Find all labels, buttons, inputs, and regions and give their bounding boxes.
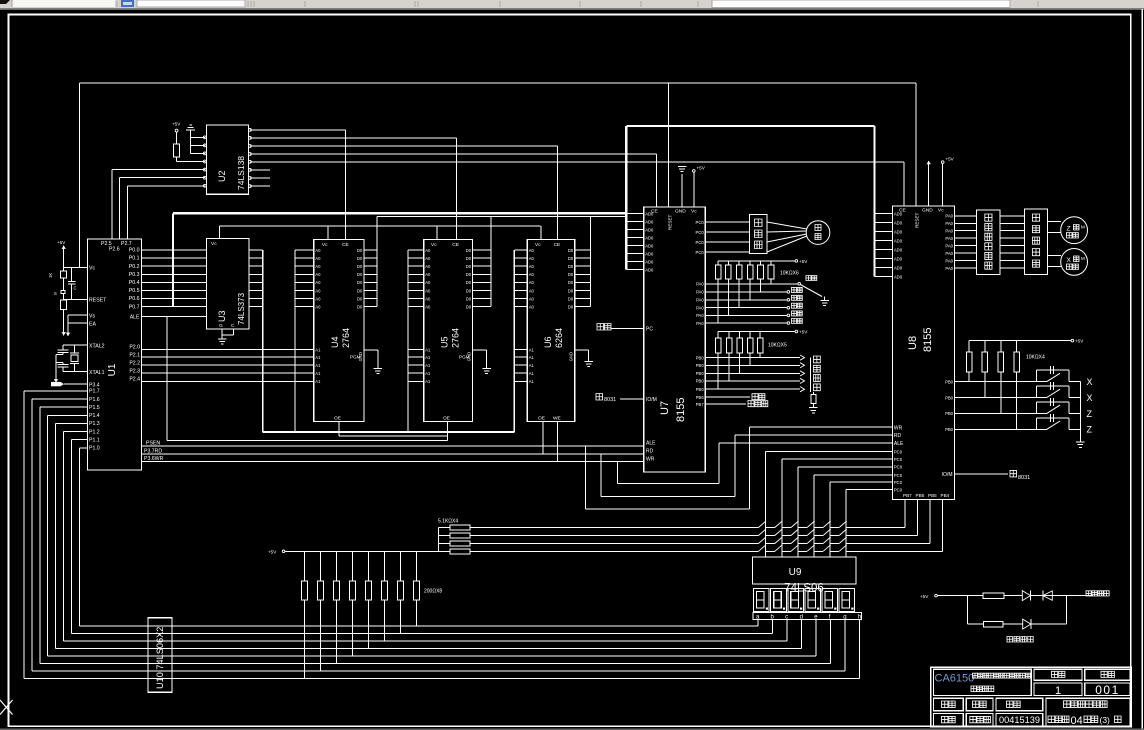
wire Vss EA to ground [68, 315, 87, 331]
svg-text:P1.2: P1.2 [89, 429, 100, 435]
title block cell drafter header [934, 698, 964, 710]
wire RD long line to U7 [142, 453, 644, 455]
svg-text:AD0: AD0 [645, 243, 654, 248]
svg-text:A1: A1 [529, 347, 535, 352]
reset button S1 [54, 290, 65, 296]
selector blade switch PA0 [798, 276, 822, 297]
U9 part label 74LS06 [784, 583, 824, 595]
svg-text:A0: A0 [425, 256, 431, 261]
svg-text:CA6150: CA6150 [935, 673, 975, 685]
label indicator output [1086, 591, 1109, 596]
wire button to reset node [63, 294, 65, 300]
svg-text:WR: WR [894, 426, 903, 432]
svg-text:AD0: AD0 [894, 220, 903, 225]
U8 PB pin wires to switches [945, 379, 1047, 432]
wire Vcc rail into U1 [64, 266, 88, 268]
limit switch S3 X [1037, 382, 1081, 398]
svg-text:D0: D0 [466, 264, 472, 269]
U5 address pin wires [408, 248, 431, 310]
data bus rail thick [173, 212, 626, 214]
svg-text:PB0: PB0 [696, 355, 705, 360]
svg-text:GND: GND [922, 208, 933, 214]
svg-text:c: c [785, 614, 788, 620]
title block outer frame [931, 667, 1131, 726]
svg-text:PB7: PB7 [903, 493, 912, 498]
U1 bottom-right pin labels PSEN RD WR [144, 440, 164, 462]
svg-text:001: 001 [1095, 683, 1120, 697]
svg-text:GND: GND [675, 209, 686, 215]
svg-text:PA0: PA0 [945, 266, 953, 271]
svg-text:P0.6: P0.6 [129, 296, 140, 302]
memory U4 (2764) body [314, 240, 364, 422]
svg-text:D0: D0 [357, 256, 363, 261]
wire XTAL2 [63, 344, 87, 346]
resistor R6 indicator [983, 621, 1003, 627]
U7 ALE RD WR pin labels [646, 440, 656, 462]
svg-text:A1: A1 [529, 379, 535, 384]
svg-text:A0: A0 [425, 272, 431, 277]
svg-text:D0: D0 [466, 256, 472, 261]
svg-text:AD0: AD0 [645, 211, 654, 216]
svg-text:WR: WR [646, 457, 655, 463]
wire Y0 to U4 CE [250, 130, 345, 240]
wire U3 outputs to A-bus v1 [249, 250, 263, 307]
U6 data bus vertical [590, 216, 592, 306]
U5 OE pin stub [443, 416, 450, 441]
svg-text:g: g [843, 614, 846, 620]
svg-text:AD0: AD0 [894, 265, 903, 270]
svg-text:PA0: PA0 [945, 251, 953, 256]
svg-text:A0: A0 [315, 296, 321, 301]
wire R3 to U2 pin G1 [177, 157, 205, 161]
svg-text:10KΩX6: 10KΩX6 [780, 271, 799, 277]
svg-text:8155: 8155 [922, 328, 934, 352]
svg-text:Vc: Vc [322, 242, 328, 248]
svg-text:PB6: PB6 [696, 395, 705, 400]
svg-text:EA: EA [89, 321, 96, 327]
relay driver box [749, 215, 767, 254]
U4 OE pin stub [334, 416, 341, 437]
svg-text:U7: U7 [659, 401, 671, 415]
svg-text:PC0: PC0 [696, 230, 705, 235]
svg-text:8031: 8031 [604, 397, 616, 403]
svg-text:10KΩX5: 10KΩX5 [768, 343, 787, 349]
U5 data bus vertical [490, 216, 492, 306]
svg-text:PB0: PB0 [696, 363, 705, 368]
svg-text:A0: A0 [425, 305, 431, 310]
svg-text:AD0: AD0 [645, 219, 654, 224]
svg-text:RD: RD [894, 433, 902, 439]
svg-text:Vc: Vc [431, 242, 437, 248]
U8 PA pin wires [945, 214, 976, 271]
U4 high address pin wires [142, 347, 322, 384]
limit switch S5 Z [1037, 414, 1081, 430]
svg-text:PC0: PC0 [696, 240, 705, 245]
svg-text:D0: D0 [568, 288, 574, 293]
U5 Vcc pin [431, 226, 437, 248]
+5V supply arrow for reset circuit [57, 240, 66, 251]
svg-text:PA0: PA0 [696, 290, 704, 295]
wire WR long line to U7 [142, 461, 644, 463]
svg-text:PA0: PA0 [696, 306, 704, 311]
ground limit switches [1076, 442, 1085, 447]
U7 PC0-PC3 pin wires [696, 220, 750, 255]
U6 OE pin stub [538, 416, 545, 454]
U5 data pin wires [466, 248, 491, 310]
svg-text:PA0: PA0 [945, 221, 953, 226]
svg-text:PB5: PB5 [928, 493, 937, 498]
svg-text:P0.1: P0.1 [129, 256, 140, 262]
U4 PGM label [350, 355, 361, 360]
svg-text:74LS138: 74LS138 [236, 156, 246, 190]
svg-text:M: M [1081, 225, 1085, 230]
svg-text:8031: 8031 [1018, 475, 1030, 481]
svg-text:U5: U5 [440, 336, 450, 348]
svg-text:A1: A1 [529, 355, 535, 360]
label X axis [1087, 377, 1093, 387]
svg-text:PC0: PC0 [894, 487, 903, 492]
svg-text:P2.2: P2.2 [129, 360, 140, 366]
+5V rail PA pull-ups [718, 259, 808, 264]
svg-text:PA0: PA0 [945, 229, 953, 234]
svg-text:ALE: ALE [130, 314, 140, 320]
svg-text:P2.3: P2.3 [129, 368, 140, 374]
resistor R5 indicator [983, 593, 1004, 599]
title block cell name value [966, 714, 993, 726]
wire ALE loop to U8 [586, 427, 893, 509]
svg-text:D0: D0 [466, 288, 472, 293]
pulse distributor box [976, 210, 1000, 275]
svg-text:OE: OE [538, 416, 545, 422]
svg-text:P3.4: P3.4 [89, 382, 100, 388]
U4 address pin wires [295, 248, 321, 310]
U8 left control pin labels [894, 426, 904, 447]
svg-text:A0: A0 [529, 264, 535, 269]
svg-text:P2.4: P2.4 [129, 377, 140, 383]
svg-text:PA0: PA0 [945, 236, 953, 241]
resistor R1 reset pull [48, 271, 67, 278]
svg-text:IO/M: IO/M [646, 397, 657, 403]
svg-text:2764: 2764 [451, 328, 461, 348]
svg-text:Vs: Vs [89, 313, 95, 319]
label Z axis [1087, 425, 1093, 435]
memory U6 (6264) body [527, 240, 575, 422]
wire Y3 to U7 CE [250, 154, 657, 207]
resistor R3 U2 pull-up [173, 144, 179, 157]
svg-text:P0.3: P0.3 [129, 272, 140, 278]
motor M2 Z axis stepper [1061, 217, 1088, 244]
resistor array 10KX4 [967, 341, 1045, 372]
limit switch S4 Z [1037, 398, 1081, 414]
U7 PB6 wire and label [696, 394, 765, 400]
wire indicator branch [968, 596, 1067, 625]
svg-text:200ΩX8: 200ΩX8 [424, 589, 442, 595]
resistor R2 reset to ground [61, 299, 67, 330]
U5 PGM label [459, 355, 470, 360]
AD bus thick U8 vertical [873, 126, 875, 277]
svg-text:D0: D0 [357, 264, 363, 269]
svg-text:d: d [800, 614, 803, 620]
svg-text:PA0: PA0 [696, 313, 704, 318]
svg-text:PGM: PGM [459, 355, 470, 360]
+5V rail PB pull-ups [718, 330, 808, 335]
svg-text:A0: A0 [529, 272, 535, 277]
bus riser P0 to rail [172, 213, 174, 306]
U6 address pin wires [514, 248, 534, 310]
svg-text:PA0: PA0 [945, 243, 953, 248]
svg-text:D0: D0 [466, 280, 472, 285]
svg-text:8155: 8155 [675, 398, 687, 422]
ground U7 GND pin [678, 167, 687, 207]
svg-text:X: X [1067, 257, 1072, 264]
svg-text:M: M [1081, 256, 1085, 261]
U6 GND pin to ground [569, 350, 589, 361]
svg-text:AD0: AD0 [645, 235, 654, 240]
wire crystal caps common to ground [55, 355, 57, 378]
display pin label strip [753, 613, 862, 621]
svg-text:Vc: Vc [211, 241, 217, 247]
wire limit switch common [1079, 382, 1081, 442]
U5 CE pin label [452, 242, 459, 248]
svg-text:A0: A0 [529, 305, 535, 310]
svg-text:X: X [1087, 377, 1093, 387]
resistor array 10KX5 [715, 332, 787, 353]
svg-text:PB0: PB0 [696, 387, 705, 392]
svg-text:Z: Z [1067, 226, 1071, 233]
svg-text:PB0: PB0 [945, 395, 954, 400]
svg-text:PC0: PC0 [696, 250, 705, 255]
svg-text:A1: A1 [315, 355, 321, 360]
wire P0 data bus U1 to U3 [142, 250, 207, 307]
wire P1 port verticals [24, 391, 87, 679]
svg-text:D0: D0 [568, 296, 574, 301]
svg-text:P2.6: P2.6 [109, 247, 120, 253]
U3 Vcc pin to rail [211, 226, 220, 247]
wire keyboard line 1 with hops [470, 521, 905, 528]
wire RD loop to U8 [601, 435, 892, 496]
wire keyboard line 2 with hops [470, 529, 918, 536]
svg-text:GND: GND [569, 352, 574, 361]
U7 top pin labels [651, 209, 697, 230]
svg-text:Vc: Vc [938, 208, 944, 214]
svg-text:PB0: PB0 [945, 379, 954, 384]
diode D3 [1023, 619, 1031, 629]
svg-text:PC0: PC0 [696, 220, 705, 225]
U8 bottom pin labels PB7-PB4 [903, 493, 950, 498]
svg-text:AD0: AD0 [894, 229, 903, 234]
svg-text:P1.6: P1.6 [89, 397, 100, 403]
U2 unused output stubs [250, 170, 270, 186]
svg-text:AD0: AD0 [894, 274, 903, 279]
svg-text:Vc: Vc [691, 209, 697, 215]
svg-text:CE: CE [342, 242, 349, 248]
svg-text:+5V: +5V [172, 122, 181, 127]
svg-text:D0: D0 [568, 272, 574, 277]
svg-text:A0: A0 [529, 288, 535, 293]
U7 PC label and wire [611, 327, 653, 333]
svg-text:G: G [219, 323, 223, 329]
resistor block 5.1KX4 [438, 519, 470, 554]
wires distributor to amplifier [1000, 216, 1024, 268]
U4 data pin wires [357, 248, 377, 310]
wires U2 A B C to ground [191, 130, 205, 154]
svg-text:(3): (3) [1100, 715, 1111, 725]
svg-text:U4: U4 [330, 336, 340, 348]
svg-text:D0: D0 [357, 280, 363, 285]
svg-text:D0: D0 [568, 280, 574, 285]
svg-text:A0: A0 [315, 264, 321, 269]
label to-8031 left of U7 [596, 394, 616, 404]
ground symbol U2 selects [186, 125, 195, 130]
svg-text:A0: A0 [315, 248, 321, 253]
svg-text:RESET: RESET [915, 212, 920, 228]
AD bus thick U7 vertical [625, 126, 627, 270]
wire keyboard line 3 with hops [470, 537, 930, 544]
svg-text:PGM: PGM [350, 355, 361, 360]
U4 CE pin label [342, 242, 349, 248]
wires U2 G2A G2B enable from U1 P2.5 P2.6 P2.7 [112, 170, 205, 240]
svg-text:D0: D0 [357, 272, 363, 277]
svg-text:U10 74LS06X2: U10 74LS06X2 [155, 627, 165, 689]
U5 GND pin to ground [467, 350, 487, 368]
svg-text:AD0: AD0 [645, 251, 654, 256]
memory U5 (2764) body [424, 240, 473, 422]
svg-text:OE: OE [334, 416, 341, 422]
svg-text:P2.7: P2.7 [121, 241, 132, 247]
label interrupt left of U7 [597, 324, 611, 331]
U7 PB pin wires to connector [696, 355, 805, 392]
svg-text:A0: A0 [315, 305, 321, 310]
svg-text:D0: D0 [568, 264, 574, 269]
U7 PA pin wires with buttons [696, 282, 802, 326]
svg-text:P2.0: P2.0 [129, 345, 140, 351]
svg-text:+5V: +5V [1075, 339, 1084, 344]
frame X mark bottom-left [0, 700, 13, 715]
wires amplifier to motor X [1047, 256, 1061, 267]
op-amp U3 (74LS373 latch) body [206, 239, 249, 329]
svg-text:P0.4: P0.4 [129, 280, 140, 286]
capacitor C3 on XTAL1 [56, 362, 69, 371]
svg-text:D0: D0 [568, 256, 574, 261]
U8 PC pin wires down to U9 [766, 449, 903, 557]
svg-text:A0: A0 [425, 296, 431, 301]
svg-text:P1.0: P1.0 [89, 446, 100, 452]
svg-text:P2.1: P2.1 [129, 352, 140, 358]
A-bus vertical U6 [513, 250, 515, 432]
svg-text:AD0: AD0 [645, 259, 654, 264]
title block cell studentid header [996, 698, 1043, 710]
wires amplifier to motor Z [1047, 222, 1061, 233]
svg-text:D0: D0 [568, 248, 574, 253]
svg-text:A1: A1 [529, 371, 535, 376]
U1 right pin labels P0.0-P0.7 and ALE [129, 248, 140, 321]
U6 Vcc pin [535, 226, 541, 248]
svg-text:CE: CE [452, 242, 459, 248]
title block cell name header [966, 698, 993, 710]
label Z axis [1087, 409, 1093, 419]
svg-text:+5V: +5V [697, 166, 706, 171]
wire keyboard line 4 rail with hops [285, 545, 943, 552]
node T0 label on P3.4 [51, 382, 87, 386]
svg-text:PC: PC [646, 327, 653, 333]
svg-text:AD0: AD0 [894, 238, 903, 243]
seven segment display row [754, 589, 855, 612]
resistor array 10KX6 [715, 261, 799, 279]
ground U5 [482, 368, 491, 373]
svg-text:D0: D0 [568, 305, 574, 310]
svg-text:PC0: PC0 [894, 465, 903, 470]
svg-text:P1.4: P1.4 [89, 413, 100, 419]
svg-text:A0: A0 [315, 256, 321, 261]
svg-text:A0: A0 [425, 264, 431, 269]
A-bus vertical v2 [294, 250, 296, 432]
wire reset node to U1 RESET [64, 298, 88, 300]
op-amp U8 (8155 I/O) body [892, 206, 954, 500]
title block number header cell [1085, 669, 1130, 680]
U6 WE pin stub [553, 416, 561, 462]
svg-text:PB0: PB0 [696, 371, 705, 376]
svg-text:+5V: +5V [57, 240, 66, 245]
U8 top pin labels [899, 208, 944, 228]
+5V label keyboard rail [268, 550, 285, 555]
svg-text:D0: D0 [357, 248, 363, 253]
svg-text:D0: D0 [357, 288, 363, 293]
crystal Y1 [70, 345, 79, 372]
svg-text:RESET: RESET [89, 298, 107, 304]
svg-text:A0: A0 [315, 280, 321, 285]
+5V label indicator circuit [920, 594, 937, 599]
svg-text:P0.5: P0.5 [129, 288, 140, 294]
wire PSEN link U4 U5 OE [339, 435, 448, 437]
title block quantity header cell [1034, 669, 1082, 680]
wire Y2 to U6 CE [250, 146, 558, 240]
svg-text:P1.5: P1.5 [89, 405, 100, 411]
svg-text:C: C [74, 286, 77, 291]
svg-text:WE: WE [553, 416, 561, 422]
svg-text:D0: D0 [357, 296, 363, 301]
svg-text:A1: A1 [425, 355, 431, 360]
svg-text:A1: A1 [425, 371, 431, 376]
svg-text:AD0: AD0 [894, 256, 903, 261]
svg-text:U1: U1 [107, 363, 118, 376]
op-amp U9 (74LS06 driver) body [753, 557, 857, 584]
resistor array 200X8 [302, 551, 443, 678]
wire +5V top rail to U1 Vcc [80, 83, 917, 267]
wire WR loop to U8 [617, 443, 892, 483]
svg-text:RD: RD [646, 449, 654, 455]
wire ALE drop line [167, 316, 448, 440]
op-amp U10 (74LS06X2 driver) body [148, 618, 172, 693]
svg-text:A1: A1 [425, 379, 431, 384]
wire ALE long line to U7 [142, 445, 644, 447]
svg-text:X: X [1087, 393, 1093, 403]
svg-text:PC0: PC0 [894, 449, 903, 454]
title block cell school [1046, 698, 1130, 727]
svg-text:P1.7: P1.7 [89, 389, 100, 395]
ground PB connector [809, 408, 818, 413]
svg-text:S: S [54, 291, 57, 296]
U6 CE pin label [554, 242, 561, 248]
U1 P1 pin labels [89, 389, 100, 452]
title block number value cell [1085, 683, 1130, 697]
ground arrow reset chain [62, 330, 66, 336]
svg-text:PC0: PC0 [894, 457, 903, 462]
svg-text:A1: A1 [315, 347, 321, 352]
U1 left pin labels [89, 266, 107, 389]
U1 top pin labels P2.5 P2.7 P2.6 [101, 241, 132, 253]
U4 data bus vertical [376, 216, 378, 306]
title block main cell [934, 669, 1032, 695]
